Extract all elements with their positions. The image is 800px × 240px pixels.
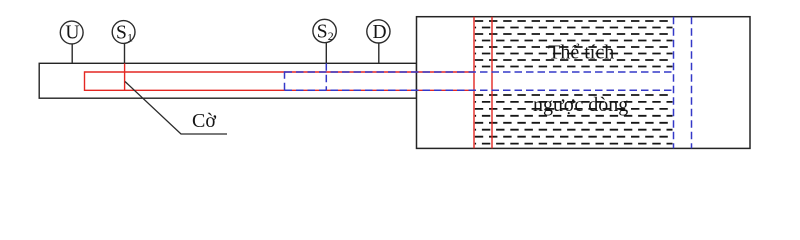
svg-text:1: 1 <box>127 31 133 45</box>
svg-text:U: U <box>65 22 79 43</box>
svg-text:ngược dòng: ngược dòng <box>533 94 628 116</box>
svg-text:S: S <box>116 22 127 43</box>
svg-text:Thể tích: Thể tích <box>548 42 614 64</box>
svg-text:2: 2 <box>328 29 334 43</box>
svg-text:Cờ: Cờ <box>192 110 216 132</box>
svg-text:D: D <box>372 22 386 43</box>
svg-text:S: S <box>317 21 328 42</box>
